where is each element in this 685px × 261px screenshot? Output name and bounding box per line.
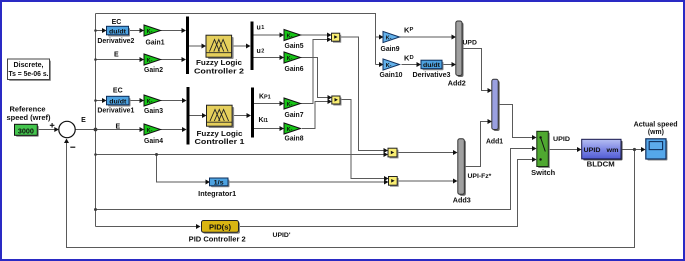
svg-text:K-: K- [147, 128, 153, 134]
arrowheads [54, 28, 645, 229]
wire: Gain10 out to Derivative3 [402, 64, 418, 66]
wire: Fuzzy Logic Controller 1 to Demux2 [232, 115, 248, 117]
fuzzy logic controller 1 [207, 105, 235, 128]
derivative block Derivative1 [107, 96, 131, 106]
svg-text:UPID: UPID [584, 147, 601, 154]
svg-text:Controller 2: Controller 2 [194, 69, 244, 76]
svg-text:Gain8: Gain8 [285, 136, 304, 143]
svg-text:I1: I1 [264, 118, 269, 124]
product Product2 [332, 96, 342, 106]
integrator Integrator1 [210, 178, 230, 187]
svg-text:Add2: Add2 [448, 81, 466, 88]
gain Gain6 [284, 52, 301, 63]
svg-text:Gain1: Gain1 [146, 40, 165, 47]
svg-text:2: 2 [261, 49, 264, 55]
sum junction [59, 121, 75, 137]
wire: Gain7 out up to Product1 input2 [301, 40, 329, 104]
wire: E top run to Gain9/Gain10 riser [96, 14, 376, 65]
wire: Add3 out UPI-Fz* to Add1 input2 [465, 122, 489, 167]
svg-text:E: E [115, 123, 120, 130]
mux Mux2 [187, 87, 190, 145]
wire: Gain6 out down to Product2 input1 [301, 58, 329, 98]
svg-text:Derivative2: Derivative2 [97, 38, 134, 45]
wire: E run to Switch input2 [96, 149, 533, 210]
wire: riser tap to Gain9 [376, 36, 380, 38]
svg-text:K-: K- [147, 29, 153, 35]
wire: Product4 out to Add3 input2 [398, 180, 455, 182]
svg-text:speed (wref): speed (wref) [7, 115, 51, 122]
wire: E tap to Derivative1 [96, 100, 103, 102]
wire: Add2 out UPD to Add1 input1 [462, 49, 489, 91]
derivative block Derivative2 [107, 26, 131, 36]
svg-text:1/s: 1/s [214, 179, 224, 186]
svg-text:Reference: Reference [10, 107, 46, 114]
product Product1 [332, 33, 342, 43]
wire: speed feedback down and back to sum [67, 142, 635, 248]
gain Gain3 [144, 95, 161, 106]
svg-text:K-: K- [287, 56, 293, 62]
svg-text:Gain10: Gain10 [380, 72, 403, 79]
gain Gain9 [383, 31, 400, 42]
svg-text:Gain4: Gain4 [144, 138, 163, 145]
sum Add1 [492, 79, 500, 131]
wire: Derivative1 out to Gain3 [129, 100, 141, 102]
svg-text:du/dt: du/dt [423, 62, 441, 69]
svg-text:E: E [81, 117, 86, 124]
svg-text:Gain9: Gain9 [381, 46, 400, 53]
svg-text:Derivative1: Derivative1 [97, 107, 134, 114]
svg-text:Ts = 5e-06 s.: Ts = 5e-06 s. [9, 71, 49, 78]
product Product3 [388, 148, 399, 158]
wire: Mux1 to Fuzzy Logic Controller 2 [189, 45, 203, 47]
svg-text:Fuzzy Logic: Fuzzy Logic [196, 60, 242, 67]
svg-text:Gain3: Gain3 [144, 108, 163, 115]
wire: Gain5 out to Product1 input1 [301, 34, 329, 36]
svg-text:Gain7: Gain7 [285, 112, 304, 119]
sum Add3 [458, 139, 466, 196]
svg-text:du/dt: du/dt [109, 98, 127, 105]
wire: Add1 out to Switch input1 [498, 105, 532, 138]
annotation: Discrete Ts = 5e-06 s. [8, 59, 52, 81]
wire: Product3 out to Add3 input1 [398, 152, 455, 154]
svg-text:BLDCM: BLDCM [587, 162, 615, 169]
wire: constant 3000 to sum [38, 129, 56, 131]
wire: Integrator1 out to Product4 input2 [228, 181, 386, 183]
svg-text:du/dt: du/dt [109, 28, 127, 35]
wire: riser bottom to Gain10 [376, 64, 380, 66]
mux Mux1 [186, 17, 189, 75]
svg-text:Controller 1: Controller 1 [195, 139, 245, 146]
svg-text:u: u [257, 25, 261, 32]
PID controller block PID(s) [202, 221, 241, 234]
svg-text:UPID: UPID [553, 136, 570, 143]
svg-text:K-: K- [386, 63, 392, 69]
svg-text:K-: K- [287, 34, 293, 40]
wire: Gain9 out to Add2 input1 [400, 36, 453, 38]
wire: Switch out UPID to BLDCM [549, 149, 578, 151]
wire: KI1 demux to Gain8 [254, 128, 281, 130]
svg-text:u: u [257, 48, 261, 55]
svg-text:3000: 3000 [18, 128, 34, 135]
svg-text:Fuzzy Logic: Fuzzy Logic [197, 131, 243, 138]
derivative block Derivative3 [421, 60, 444, 70]
wire: Gain3 out to Mux2 [161, 100, 183, 102]
svg-text:UPI-Fz*: UPI-Fz* [468, 173, 492, 180]
constant 3000 [15, 124, 39, 137]
BLDCM block [582, 139, 623, 160]
wire: BLDCM out wm to Scope [621, 149, 642, 151]
switch Switch [537, 131, 550, 168]
gain Gain10 [383, 59, 400, 70]
wire: KP1 demux to Gain7 [254, 103, 281, 105]
gain Gain1 [144, 25, 161, 36]
gain Gain5 [284, 30, 301, 41]
svg-text:wm: wm [605, 147, 618, 154]
wire: Gain4 out to Mux2 [161, 129, 183, 131]
wire: Derivative2 out to Gain1 [129, 30, 141, 32]
svg-text:Actual speed: Actual speed [634, 122, 678, 129]
svg-text:Add1: Add1 [486, 139, 503, 146]
svg-text:P: P [410, 27, 414, 33]
wire: Gain8 out up to Product2 input2 [302, 102, 329, 129]
product Product4 [389, 177, 399, 187]
gain Gain2 [144, 54, 161, 65]
wire: Derivative3 out to Add2 input2 [442, 64, 452, 66]
svg-text:Derivative3: Derivative3 [413, 72, 451, 79]
fuzzy logic controller 2 [206, 35, 234, 59]
wire: E bus vertical [95, 14, 97, 227]
svg-text:Discrete,: Discrete, [14, 62, 44, 69]
svg-text:EC: EC [112, 19, 122, 26]
wire: integrator branch from long E run [157, 155, 207, 183]
gain Gain7 [284, 98, 301, 109]
svg-text:E: E [114, 52, 119, 59]
wire: u2 demux to Gain6 [254, 57, 281, 59]
scope Actual speed [646, 139, 668, 161]
wire: long E run to Product3 input2 [96, 154, 384, 156]
wire: u1 demux to Gain5 [254, 34, 281, 36]
gain Gain4 [144, 124, 161, 135]
wire: Gain2 out to Mux1 [161, 59, 183, 61]
svg-text:K-: K- [287, 127, 293, 133]
wire: PID Controller 2 out UPID' to Switch input3 [239, 160, 533, 227]
wire: Product2 out down to Product4 input1 [340, 100, 386, 179]
wire: E tap to Derivative2 [96, 30, 103, 32]
svg-text:1: 1 [261, 25, 264, 31]
svg-text:Gain6: Gain6 [285, 66, 304, 73]
sum Add2 [456, 21, 464, 77]
svg-text:K-: K- [287, 102, 293, 108]
svg-text:PID Controller 2: PID Controller 2 [189, 237, 246, 244]
svg-text:Integrator1: Integrator1 [198, 191, 236, 198]
svg-text:UPD: UPD [463, 40, 477, 47]
demux Demux2 [251, 88, 254, 138]
svg-text:K-: K- [386, 36, 392, 42]
svg-text:Gain5: Gain5 [285, 43, 304, 50]
wire: Gain1 out to Mux1 [161, 30, 183, 32]
svg-text:(wm): (wm) [648, 129, 664, 136]
demux Demux1 [251, 22, 254, 71]
svg-text:PID(s): PID(s) [209, 225, 231, 232]
svg-text:P1: P1 [264, 95, 271, 101]
wire: E tap to Gain2 [96, 59, 141, 61]
wire: Fuzzy Logic Controller 2 to Demux1 [232, 45, 248, 47]
svg-text:UPID': UPID' [273, 232, 291, 239]
wire: Mux2 to Fuzzy Logic Controller 1 [190, 115, 204, 117]
svg-text:K-: K- [147, 58, 153, 64]
svg-text:K-: K- [147, 99, 153, 105]
wire: E bottom to PID Controller 2 [96, 226, 197, 228]
gain Gain8 [284, 123, 301, 134]
svg-text:Switch: Switch [531, 170, 555, 177]
svg-text:D: D [410, 55, 414, 61]
wire: sum output E to Gain4 [76, 129, 142, 131]
wire: Product1 out down to Product3 input1 [340, 37, 385, 151]
svg-text:EC: EC [113, 88, 123, 95]
svg-text:Add3: Add3 [453, 198, 471, 205]
svg-text:Gain2: Gain2 [144, 67, 163, 74]
